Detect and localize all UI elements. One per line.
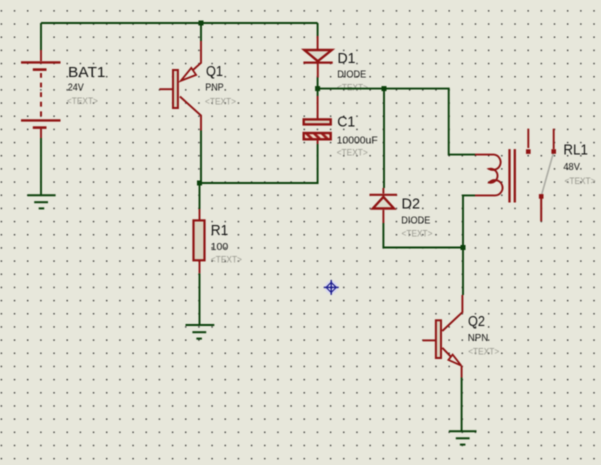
svg-text:Q1: Q1 [206, 63, 223, 80]
svg-text:PNP: PNP [205, 83, 224, 94]
svg-text:D2: D2 [402, 196, 421, 213]
svg-text:<TEXT>: <TEXT> [402, 228, 433, 239]
svg-text:<TEXT>: <TEXT> [468, 346, 499, 357]
svg-text:<TEXT>: <TEXT> [211, 255, 242, 266]
svg-text:<TEXT>: <TEXT> [67, 96, 98, 107]
svg-text:48V: 48V [563, 162, 580, 173]
svg-text:Q2: Q2 [468, 313, 485, 330]
svg-text:<TEXT>: <TEXT> [565, 176, 596, 187]
svg-text:R1: R1 [211, 222, 229, 239]
svg-text:NPN: NPN [468, 333, 489, 344]
svg-text:24V: 24V [68, 83, 84, 94]
svg-text:10000uF: 10000uF [337, 136, 378, 147]
svg-text:DIODE: DIODE [401, 216, 430, 227]
svg-text:<TEXT>: <TEXT> [337, 148, 368, 159]
svg-text:RL1: RL1 [563, 142, 588, 159]
svg-text:DIODE: DIODE [337, 70, 366, 81]
svg-text:D1: D1 [338, 50, 356, 67]
svg-text:<TEXT>: <TEXT> [205, 97, 236, 108]
svg-text:100: 100 [211, 242, 229, 253]
svg-text:C1: C1 [337, 114, 355, 131]
svg-text:BAT1: BAT1 [68, 64, 106, 81]
